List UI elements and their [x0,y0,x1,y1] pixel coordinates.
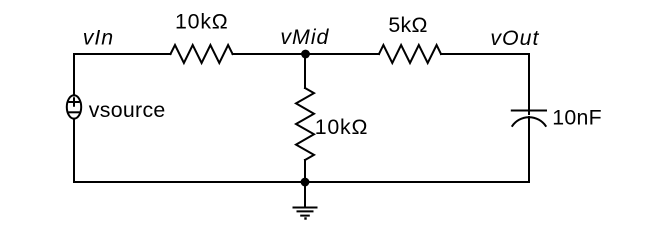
svg-text:vsource: vsource [89,98,166,122]
voltage source plus sign [69,98,78,106]
svg-text:10kΩ: 10kΩ [315,115,369,139]
wire left drop below source [73,119,75,182]
wire top rail middle segment (vMid) [233,53,379,55]
svg-text:10nF: 10nF [552,106,602,130]
svg-text:vIn: vIn [83,25,114,49]
resistor R2 5kΩ zigzag [379,45,441,63]
svg-text:5kΩ: 5kΩ [388,13,427,37]
ground bar 1 [294,207,317,209]
wire top rail right segment (vOut) [441,53,529,55]
ground bar 3 [301,215,309,217]
wire left drop above source [73,54,75,95]
ground bar 4 (dot) [304,217,306,219]
resistor R1 10kΩ zigzag [171,45,233,63]
ground stub [304,182,306,207]
wire resistor to bottom rail [304,160,306,182]
voltage source minus sign [69,111,78,113]
svg-text:10kΩ: 10kΩ [175,10,229,34]
svg-text:vOut: vOut [490,26,539,50]
resistor R3 10kΩ vertical zigzag [296,88,314,160]
ground bar 2 [298,210,313,212]
wire bottom rail [74,181,529,183]
capacitor C1 curved bottom plate [512,117,545,126]
wire capacitor to bottom rail [528,117,530,182]
junction node ground [301,178,310,187]
wire vMid drop to resistor [304,54,306,88]
voltage source V1 ellipse [67,95,81,118]
wire vOut drop to capacitor [528,54,530,114]
svg-text:vMid: vMid [280,25,329,49]
wire top rail left segment (vIn) [74,53,171,55]
capacitor C1 top plate [512,110,546,112]
junction node vMid [301,50,310,59]
